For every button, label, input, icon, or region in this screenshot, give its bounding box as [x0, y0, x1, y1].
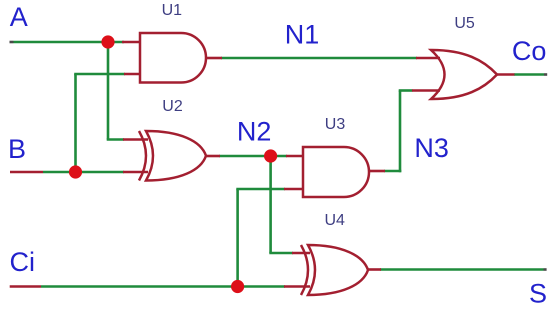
- xor-gate U2 front arc: [139, 131, 146, 181]
- svg-text:S: S: [529, 279, 547, 309]
- junction dot node A: [101, 35, 114, 48]
- wire B horizontal: [43, 171, 124, 174]
- wire Co: [514, 73, 544, 76]
- and-gate U1 body: [140, 33, 206, 83]
- junction dot node N2: [264, 149, 277, 162]
- wire N3 vertical: [399, 91, 402, 173]
- svg-text:Co: Co: [512, 36, 547, 66]
- xor-gate U4 front arc: [301, 245, 308, 295]
- svg-text:U1: U1: [162, 2, 183, 19]
- wire A branch vertical: [107, 42, 110, 140]
- wire A open-end tip: [10, 41, 14, 44]
- xor-gate U2 body: [146, 131, 206, 181]
- svg-text:Ci: Ci: [10, 247, 36, 277]
- wire B stub red: [10, 171, 43, 174]
- U3 pin stub input Ci branch: [284, 188, 304, 191]
- U1 pin stub input A: [122, 41, 141, 44]
- U2 pin stub input A: [123, 138, 148, 141]
- U4 pin stub input Ci: [284, 285, 310, 288]
- wire A horizontal: [14, 41, 125, 44]
- wire S: [380, 268, 544, 271]
- U1 pin stub output N1: [206, 57, 222, 60]
- wire N2 branch vertical: [269, 156, 272, 253]
- svg-text:U4: U4: [324, 212, 345, 229]
- svg-text:U5: U5: [454, 15, 475, 32]
- wire A branch horizontal to U2: [107, 138, 124, 141]
- svg-text:U2: U2: [162, 98, 183, 115]
- and-gate U3 body: [303, 147, 369, 197]
- wire N1: [221, 57, 417, 60]
- U1 pin stub input B: [124, 73, 141, 76]
- svg-text:A: A: [10, 2, 28, 32]
- wire B branch horizontal to U1: [74, 73, 125, 76]
- wire B branch vertical: [74, 74, 77, 172]
- junction dot node B: [69, 165, 82, 178]
- wire N3 horizontal from U3: [384, 170, 401, 173]
- U4 pin stub input N2: [292, 252, 310, 255]
- U5 pin stub output Co: [497, 73, 515, 76]
- svg-text:N3: N3: [414, 133, 449, 163]
- U2 pin stub output N2: [206, 155, 220, 158]
- svg-text:U3: U3: [325, 116, 346, 133]
- wire N3 horizontal to U5: [399, 89, 413, 92]
- U5 pin stub input N1: [416, 57, 440, 60]
- or-gate U5 body: [431, 50, 497, 99]
- wire N2 horizontal: [219, 155, 287, 158]
- U2 pin stub input B: [123, 171, 148, 174]
- wire N2 branch horizontal to U4: [269, 252, 293, 255]
- wire Co open-end tip: [544, 73, 547, 76]
- U3 pin stub input N2: [286, 155, 304, 158]
- U5 pin stub input N3: [412, 89, 440, 92]
- svg-text:N2: N2: [237, 117, 272, 147]
- junction dot node Ci: [231, 280, 244, 293]
- xor-gate U4 body: [308, 245, 368, 295]
- svg-text:B: B: [8, 134, 26, 164]
- wire Ci horizontal: [41, 285, 285, 288]
- U3 pin stub output N3: [369, 170, 385, 173]
- wire S open-end tip: [544, 268, 547, 271]
- wire Ci branch horizontal to U3: [236, 188, 285, 191]
- wire Ci stub red: [10, 285, 41, 288]
- U4 pin stub output S: [368, 268, 381, 271]
- wire Ci branch vertical: [236, 189, 239, 287]
- svg-text:N1: N1: [285, 19, 320, 49]
